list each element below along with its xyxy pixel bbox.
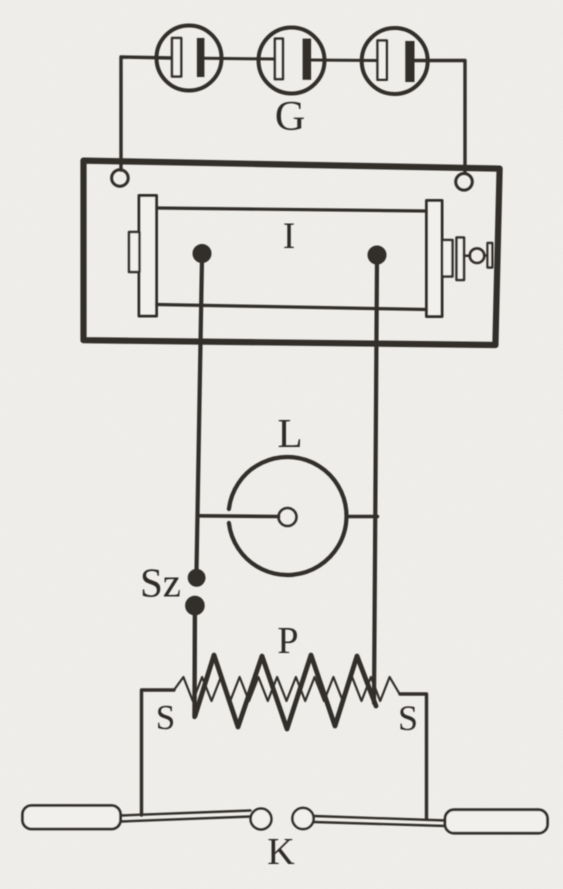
key left bar lower line xyxy=(121,817,251,822)
key right bar upper line xyxy=(314,816,447,821)
Sz lower contact dot xyxy=(186,596,205,615)
wire cell2 to cell3 xyxy=(311,59,378,63)
interrupter small block xyxy=(442,240,453,277)
interrupter screw head xyxy=(470,248,485,263)
wire from right coil dot down to rheostat xyxy=(374,259,377,703)
cell 2 positive plate xyxy=(303,39,312,80)
key contact circle right xyxy=(292,808,313,829)
key contact circle left xyxy=(251,809,272,830)
svg-text:S: S xyxy=(156,698,175,737)
coil terminal dot left xyxy=(193,245,211,263)
cell 3 circle xyxy=(362,28,428,94)
interrupter spring bar xyxy=(457,238,465,281)
key left handle xyxy=(23,806,121,830)
cell 1 circle xyxy=(157,26,222,91)
svg-text:S: S xyxy=(398,698,418,738)
wire from left coil dot down to Sz xyxy=(197,258,203,571)
coil right end plate xyxy=(427,201,443,317)
coil terminal dot right xyxy=(368,246,386,264)
right terminal of box xyxy=(456,174,473,191)
coil bottom line xyxy=(157,305,427,310)
svg-text:K: K xyxy=(267,831,295,873)
rheostat right bracket xyxy=(400,694,427,818)
interrupter link left xyxy=(464,254,470,257)
interrupter link right xyxy=(484,254,488,257)
cell 2 negative plate xyxy=(275,39,283,80)
key right bar lower line xyxy=(314,822,447,826)
rheostat thick resistance wire P xyxy=(195,655,376,729)
key left bar upper line xyxy=(121,811,251,816)
induction coil box xyxy=(84,161,500,345)
wire from battery right end down to box terminal xyxy=(414,61,465,174)
svg-text:G: G xyxy=(275,94,305,140)
cell 2 circle xyxy=(259,28,325,94)
wire cell1 to cell2 xyxy=(204,57,276,61)
rheostat thin resistance wire xyxy=(174,677,399,701)
svg-text:I: I xyxy=(283,216,295,257)
lamp right lead xyxy=(347,515,378,518)
left terminal of box xyxy=(112,170,129,187)
lamp center contact xyxy=(279,508,297,526)
coil left end plate xyxy=(139,196,157,317)
rheostat left bracket xyxy=(142,690,175,815)
cell 3 positive plate xyxy=(405,41,414,82)
svg-text:L: L xyxy=(277,410,302,456)
lamp left lead xyxy=(200,514,279,518)
svg-text:Sz: Sz xyxy=(140,560,181,606)
coil left cap xyxy=(129,232,140,272)
interrupter outer bar xyxy=(488,243,493,268)
cell 1 positive plate xyxy=(197,38,205,77)
lamp L circle with gap at left xyxy=(229,457,347,575)
coil top line xyxy=(157,208,427,211)
wire from battery left end down to box terminal xyxy=(121,57,172,170)
wire from Sz down to rheostat slider xyxy=(192,610,197,717)
Sz upper contact dot xyxy=(188,569,205,586)
cell 1 negative plate xyxy=(172,38,181,77)
svg-text:P: P xyxy=(277,620,298,662)
key right handle xyxy=(445,810,548,834)
cell 3 negative plate xyxy=(378,41,387,80)
